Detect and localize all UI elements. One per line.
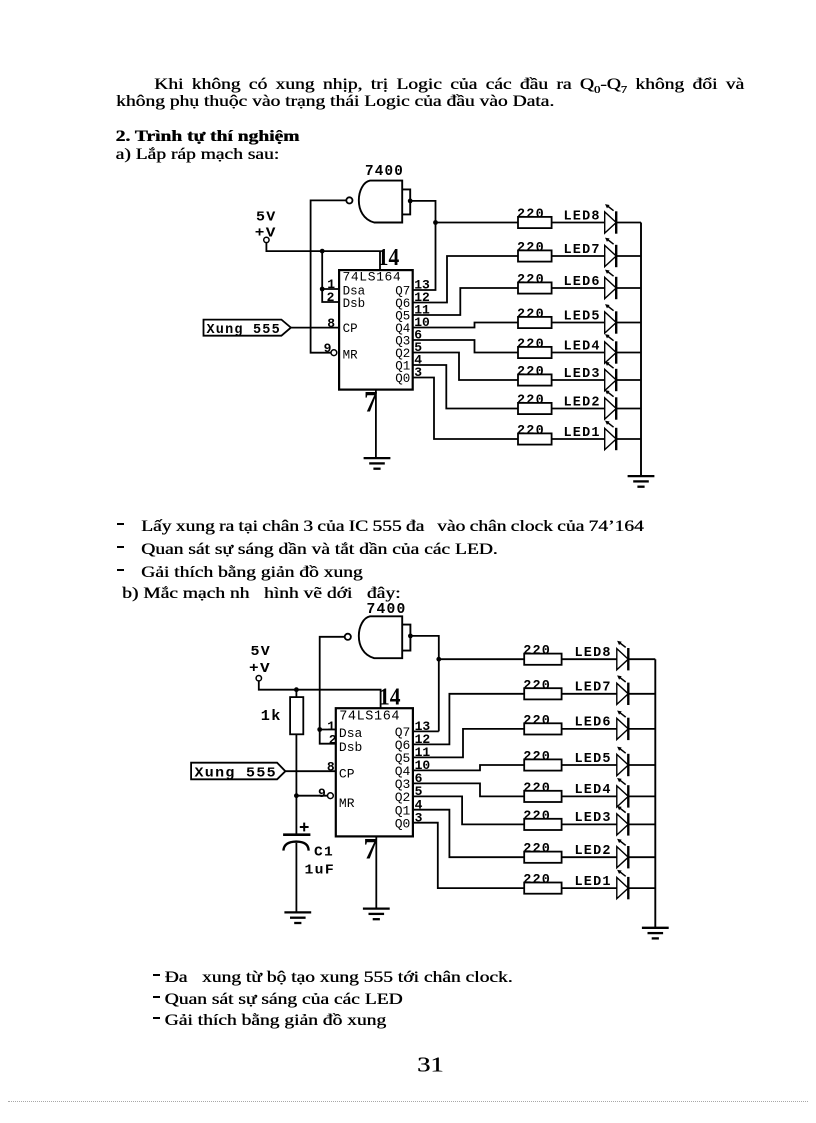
wire C1 to ground <box>295 843 297 912</box>
resistor R 1k <box>290 697 303 734</box>
wire resistor to LED5 (S2) <box>562 764 617 766</box>
svg-text:14: 14 <box>378 244 400 271</box>
svg-text:220: 220 <box>523 781 551 796</box>
wire LED2 to bus (S2) <box>628 856 655 858</box>
svg-text:5V: 5V <box>251 644 272 660</box>
resistor 220 (R7 S1) <box>518 250 552 261</box>
svg-text:LED5: LED5 <box>564 309 601 324</box>
wire pin 3 (Q0) to LED1 row <box>413 378 518 440</box>
wire LED5 to bus (S2) <box>628 764 655 766</box>
svg-text:LED3: LED3 <box>564 367 601 382</box>
wire LED8 to bus (S2) <box>628 658 655 660</box>
svg-text:LED4: LED4 <box>564 339 601 354</box>
wire tie Dsa-Dsb S2 <box>320 730 336 744</box>
wire resistor to LED5 <box>552 322 605 324</box>
svg-text:74LS164: 74LS164 <box>343 270 402 285</box>
ground (bus S1) <box>628 476 655 487</box>
svg-text:MR: MR <box>343 348 359 362</box>
svg-text:220: 220 <box>523 714 551 729</box>
LED LED6 S2 symbol <box>617 711 629 741</box>
svg-text:220: 220 <box>517 308 545 323</box>
IC U2 74LS164 body <box>339 270 413 390</box>
LED LED6 S1 symbol <box>605 270 617 300</box>
resistor 220 (R8 S1) <box>518 217 552 228</box>
junction MR/RC node S2 <box>294 793 299 798</box>
LED LED5 S2 symbol <box>617 747 629 777</box>
svg-text:LED3: LED3 <box>575 811 612 826</box>
resistor 220 (R2 S2) <box>524 852 561 863</box>
svg-text:C1: C1 <box>314 845 334 860</box>
wire tie Dsa-Dsb (pins 1-2) <box>322 289 339 302</box>
resistor 220 (R3 S1) <box>518 374 552 385</box>
svg-text:MR: MR <box>339 796 355 811</box>
wire LED3 to bus (S2) <box>628 823 655 825</box>
wire pin 7 to ground (S2) <box>375 836 377 908</box>
resistor 220 (R5 S2) <box>524 759 561 770</box>
wire resistor to LED3 (S2) <box>562 823 617 825</box>
svg-text:220: 220 <box>517 365 545 380</box>
wire resistor to LED7 (S2) <box>562 693 617 695</box>
wire cathode bus S1 <box>640 223 642 477</box>
junction Dsa node S2 <box>317 727 322 732</box>
junction NAND input node S1 <box>408 199 413 204</box>
wire LED1 to bus (S2) <box>628 887 655 889</box>
wire pin 5 (Q2) to LED3 row <box>413 353 518 381</box>
paragraph 1 line 2 <box>116 94 554 110</box>
svg-text:220: 220 <box>517 424 545 439</box>
wire NAND inputs to Q7 riser <box>410 201 435 223</box>
junction Q7/LED8 node S1 <box>433 220 438 225</box>
item a <box>116 147 280 163</box>
wire pin 4 (Q1) to LED2 row <box>413 365 518 409</box>
wire LED6 to bus (S2) <box>628 728 655 730</box>
wire Xung 555 to CP pin 8 (S2) <box>285 770 335 772</box>
resistor 220 (R6 S2) <box>524 723 561 734</box>
page number <box>417 1057 444 1073</box>
resistor 220 (R4 S1) <box>518 347 552 358</box>
wire resistor to LED2 <box>552 408 605 410</box>
wire LED8 to bus <box>616 222 641 224</box>
svg-text:LED1: LED1 <box>564 426 601 441</box>
LED LED4 S1 symbol <box>605 334 617 364</box>
supply terminal (S2) <box>256 676 261 681</box>
wire resistor to LED1 (S2) <box>562 887 617 889</box>
LED LED3 S1 symbol <box>605 362 617 392</box>
LED LED5 S1 symbol <box>605 304 617 334</box>
svg-text:LED2: LED2 <box>575 844 612 859</box>
wire resistor to LED7 <box>552 255 605 257</box>
LED LED7 S2 symbol <box>617 675 629 705</box>
wire pin 4 (Q1) to LED2 row (S2) <box>413 810 524 858</box>
svg-text:LED5: LED5 <box>575 752 612 767</box>
svg-text:LED8: LED8 <box>564 209 601 224</box>
svg-text:2: 2 <box>327 290 335 305</box>
svg-text:LED1: LED1 <box>575 875 612 890</box>
svg-text:220: 220 <box>517 273 545 288</box>
resistor 220 (R8 S2) <box>524 654 561 665</box>
svg-text:LED7: LED7 <box>575 681 612 696</box>
resistor 220 (R4 S2) <box>524 791 561 802</box>
middle list <box>117 523 124 525</box>
ground (IC S2) <box>363 909 390 920</box>
junction Dsa node S1 <box>320 287 325 292</box>
wire pin 5 (Q2) to LED3 row (S2) <box>413 796 524 824</box>
NAND U1 output bubble <box>346 197 352 203</box>
NAND U3 input tie bracket <box>402 625 410 651</box>
wire pin 12 (Q6) to LED7 row <box>413 256 518 303</box>
NAND gate U1 body (mirrored, inputs right, output bubble left) <box>359 181 402 223</box>
wire resistor to LED8 <box>552 222 605 224</box>
input flag Xung 555 (S2) <box>191 763 285 780</box>
wire pin 10 (Q4) to LED5 row (S2) <box>413 765 524 770</box>
wire pin 6 (Q3) to LED4 row (S2) <box>413 783 524 796</box>
ground (IC S1) <box>364 458 391 469</box>
LED LED8 S1 symbol <box>605 204 617 234</box>
svg-text:220: 220 <box>523 809 551 824</box>
wire resistor to LED3 <box>552 379 605 381</box>
svg-text:220: 220 <box>523 873 551 888</box>
wire LED3 to bus <box>616 379 641 381</box>
svg-text:5V: 5V <box>256 210 277 226</box>
svg-text:Q0: Q0 <box>395 816 411 831</box>
wire NAND inputs to Q7 riser S2 <box>410 636 438 732</box>
wire resistor to LED1 <box>552 438 605 440</box>
svg-text:74LS164: 74LS164 <box>339 710 400 725</box>
wire resistor to LED6 <box>552 287 605 289</box>
wire pin 11 (Q5) to LED6 row <box>413 288 518 315</box>
svg-text:LED6: LED6 <box>564 275 601 290</box>
svg-text:LED6: LED6 <box>575 716 612 731</box>
LED LED2 S1 symbol <box>605 390 617 420</box>
wire pin 12 (Q6) to LED7 row (S2) <box>413 694 524 745</box>
svg-text:Dsb: Dsb <box>343 297 366 311</box>
NAND U3 output bubble <box>345 634 351 640</box>
svg-text:Xung 555: Xung 555 <box>207 323 281 338</box>
wire R 1k to MR node and C1 <box>295 734 297 834</box>
resistor 220 (R3 S2) <box>524 819 561 830</box>
LED LED1 S2 symbol <box>617 870 629 900</box>
wire LED5 to bus <box>616 322 641 324</box>
svg-text:Dsb: Dsb <box>339 740 362 755</box>
LED LED4 S2 symbol <box>617 778 629 808</box>
svg-text:220: 220 <box>523 644 551 659</box>
svg-text:220: 220 <box>517 394 545 409</box>
heading 2 <box>116 129 300 145</box>
svg-text:LED7: LED7 <box>564 243 601 258</box>
capacitor C1 top plate <box>283 833 310 836</box>
ground (C1 S2) <box>284 912 311 923</box>
svg-text:220: 220 <box>523 679 551 694</box>
svg-text:2: 2 <box>329 733 337 748</box>
wire pin 13 (Q7) to LED8 row (S2) <box>413 730 439 732</box>
junction Q7/LED8 node S2 <box>436 657 441 662</box>
svg-text:8: 8 <box>327 316 335 331</box>
LED LED8 S2 symbol <box>617 641 629 671</box>
wire pin 6 (Q3) to LED4 row <box>413 340 518 353</box>
bottom list <box>153 974 160 976</box>
resistor 220 (R1 S2) <box>524 883 561 894</box>
IC U4 74LS164 body <box>336 708 413 836</box>
svg-text:Q0: Q0 <box>395 372 410 386</box>
svg-text:7400: 7400 <box>365 164 404 180</box>
wire resistor to LED6 (S2) <box>562 728 617 730</box>
svg-text:LED4: LED4 <box>575 783 612 798</box>
wire resistor to LED4 (S2) <box>562 795 617 797</box>
svg-text:220: 220 <box>517 338 545 353</box>
wire pin 13 (Q7) to LED8 row <box>413 223 518 291</box>
wire 5V to pin 14 (S2) <box>259 681 381 708</box>
svg-text:220: 220 <box>523 842 551 857</box>
wire LED8 row from NAND riser (S2) <box>439 658 524 660</box>
wire resistor to LED4 <box>552 352 605 354</box>
wire LED1 to bus <box>616 438 641 440</box>
junction 5V branch S1 <box>320 249 325 254</box>
wire LED2 to bus <box>616 408 641 410</box>
svg-text:1k: 1k <box>261 709 282 725</box>
wire 5V branch to Dsa pin 1 <box>322 251 339 289</box>
resistor 220 (R1 S1) <box>518 433 552 444</box>
wire LED4 to bus (S2) <box>628 795 655 797</box>
wire 5V node to R 1k <box>295 690 297 697</box>
input flag Xung 555 <box>204 320 291 336</box>
wire NAND output to MR (pin 9) <box>311 200 347 352</box>
wire pin 10 (Q4) to LED5 row <box>413 323 518 328</box>
supply terminal <box>264 237 269 242</box>
wire resistor to LED2 (S2) <box>562 856 617 858</box>
paragraph 1 line 1 <box>116 77 744 98</box>
svg-text:1uF: 1uF <box>305 863 336 878</box>
wire LED7 to bus (S2) <box>628 693 655 695</box>
wire LED6 to bus <box>616 287 641 289</box>
MR pin 9 inversion bubble (S2) <box>328 793 334 799</box>
resistor 220 (R7 S2) <box>524 688 561 699</box>
junction 5V/1k node S2 <box>294 687 299 692</box>
resistor 220 (R5 S1) <box>518 317 552 328</box>
ground (bus S2) <box>642 928 669 939</box>
svg-text:220: 220 <box>523 750 551 765</box>
svg-text:220: 220 <box>517 241 545 256</box>
footer dotted rule <box>8 1101 808 1102</box>
MR pin 9 inversion bubble <box>331 350 337 356</box>
svg-text:9: 9 <box>318 786 326 801</box>
wire NAND output to Dsa/Dsb S2 <box>320 637 345 730</box>
resistor 220 (R6 S1) <box>518 282 552 293</box>
wire Xung 555 to CP pin 8 <box>291 327 339 329</box>
wire LED4 to bus <box>616 352 641 354</box>
svg-text:8: 8 <box>327 759 335 774</box>
svg-text:9: 9 <box>324 341 332 356</box>
capacitor C1 plus sign <box>300 823 309 832</box>
svg-text:+V: +V <box>249 661 271 677</box>
svg-text:CP: CP <box>339 767 355 782</box>
svg-text:220: 220 <box>517 208 545 223</box>
svg-text:LED8: LED8 <box>575 646 612 661</box>
wire pin 3 (Q0) to LED1 row (S2) <box>413 823 524 888</box>
LED LED1 S1 symbol <box>605 421 617 451</box>
LED LED2 S2 symbol <box>617 839 629 869</box>
LED LED7 S1 symbol <box>605 238 617 268</box>
resistor 220 (R2 S1) <box>518 403 552 414</box>
svg-text:Dsa: Dsa <box>339 726 363 741</box>
wire resistor to LED8 (S2) <box>562 658 617 660</box>
capacitor C1 curved plate <box>283 842 308 851</box>
wire pin 7 to ground <box>375 390 377 459</box>
wire pin 11 (Q5) to LED6 row (S2) <box>413 729 524 758</box>
LED LED3 S2 symbol <box>617 806 629 836</box>
wire LED7 to bus <box>616 255 641 257</box>
NAND gate U3 body <box>359 616 402 658</box>
junction NAND input node S2 <box>408 634 413 639</box>
wire cathode bus S2 <box>654 659 656 928</box>
svg-text:CP: CP <box>343 322 358 336</box>
wire 5V to pin 14 <box>266 243 380 271</box>
svg-text:LED2: LED2 <box>564 395 601 410</box>
wire MR node to MR pin 9 (S2) <box>296 795 327 797</box>
svg-text:Xung 555: Xung 555 <box>195 766 278 781</box>
svg-text:14: 14 <box>379 684 401 711</box>
NAND U1 input tie bracket <box>402 189 410 214</box>
